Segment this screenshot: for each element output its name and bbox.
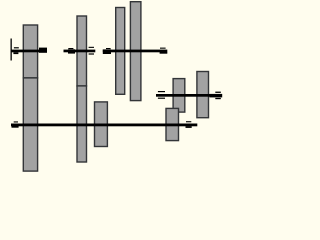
coupling C3 upper dash: [106, 48, 111, 49]
bearing B5 upper dash (shaft S4 right): [215, 92, 221, 93]
shaft S1 terminal line: [11, 39, 12, 61]
gear Z3 upper (middle narrow column): [77, 16, 87, 86]
bearing B6 upper dash (shaft S5 left): [14, 121, 18, 122]
bearing B7 lower block (shaft S5 right): [186, 126, 192, 128]
shaft S3 (top right shaft): [103, 50, 168, 53]
bearing B4 upper dash (shaft S4 left): [158, 91, 165, 92]
gear Z1 upper (left column, input stage): [23, 25, 37, 78]
bearing B5 lower dash (shaft S4 right): [215, 98, 221, 99]
gear Z5 (lower middle wide gear): [95, 102, 108, 147]
bearing B7 upper dash (shaft S5 right): [186, 121, 191, 122]
shaft S4 (right intermediate shaft): [156, 94, 210, 97]
bearing B1 upper dash (shaft S1 left): [14, 47, 19, 48]
shaft S1 (top-left input shaft): [11, 50, 47, 53]
bearing B6 block (shaft S5 left): [12, 124, 19, 128]
gear Z4 lower (middle narrow column): [77, 86, 87, 162]
gear Z6 (tall narrow gear A on shaft 3): [116, 8, 125, 95]
coupling C1 (right end of shaft S1): [39, 48, 47, 53]
gear Z7 (tall narrow gear B on shaft 3): [130, 2, 141, 101]
background canvas: [0, 0, 226, 178]
bearing B2 upper dash (shaft S2 right): [89, 47, 94, 48]
gear Z8 (gear D on shaft 4): [173, 79, 185, 113]
shaft S4 thick end segment: [210, 94, 223, 98]
bearing B3 lower block (shaft S3 right): [160, 52, 168, 54]
bearing B3 upper dash (shaft S3 right): [160, 48, 166, 49]
coupling C2 upper dash: [68, 48, 73, 49]
coupling C3 (left end of shaft S3): [103, 49, 111, 54]
gear Z2 lower (left column, output stage): [23, 78, 37, 171]
gear Z9 (gear E on shaft 4): [197, 72, 209, 118]
bearing B1 lower block (shaft S1 left): [13, 52, 18, 54]
shaft S5 (lower output shaft): [11, 124, 197, 127]
shaft S2 (top middle shaft): [64, 50, 96, 53]
bearing B2 lower dash (shaft S2 right): [89, 53, 94, 54]
coupling C2 (left end of shaft S2): [68, 49, 75, 53]
gear Z10 (gear F on lower shaft, drawn over Z8): [166, 108, 179, 140]
bearing B4 lower dash (shaft S4 left): [158, 98, 165, 99]
